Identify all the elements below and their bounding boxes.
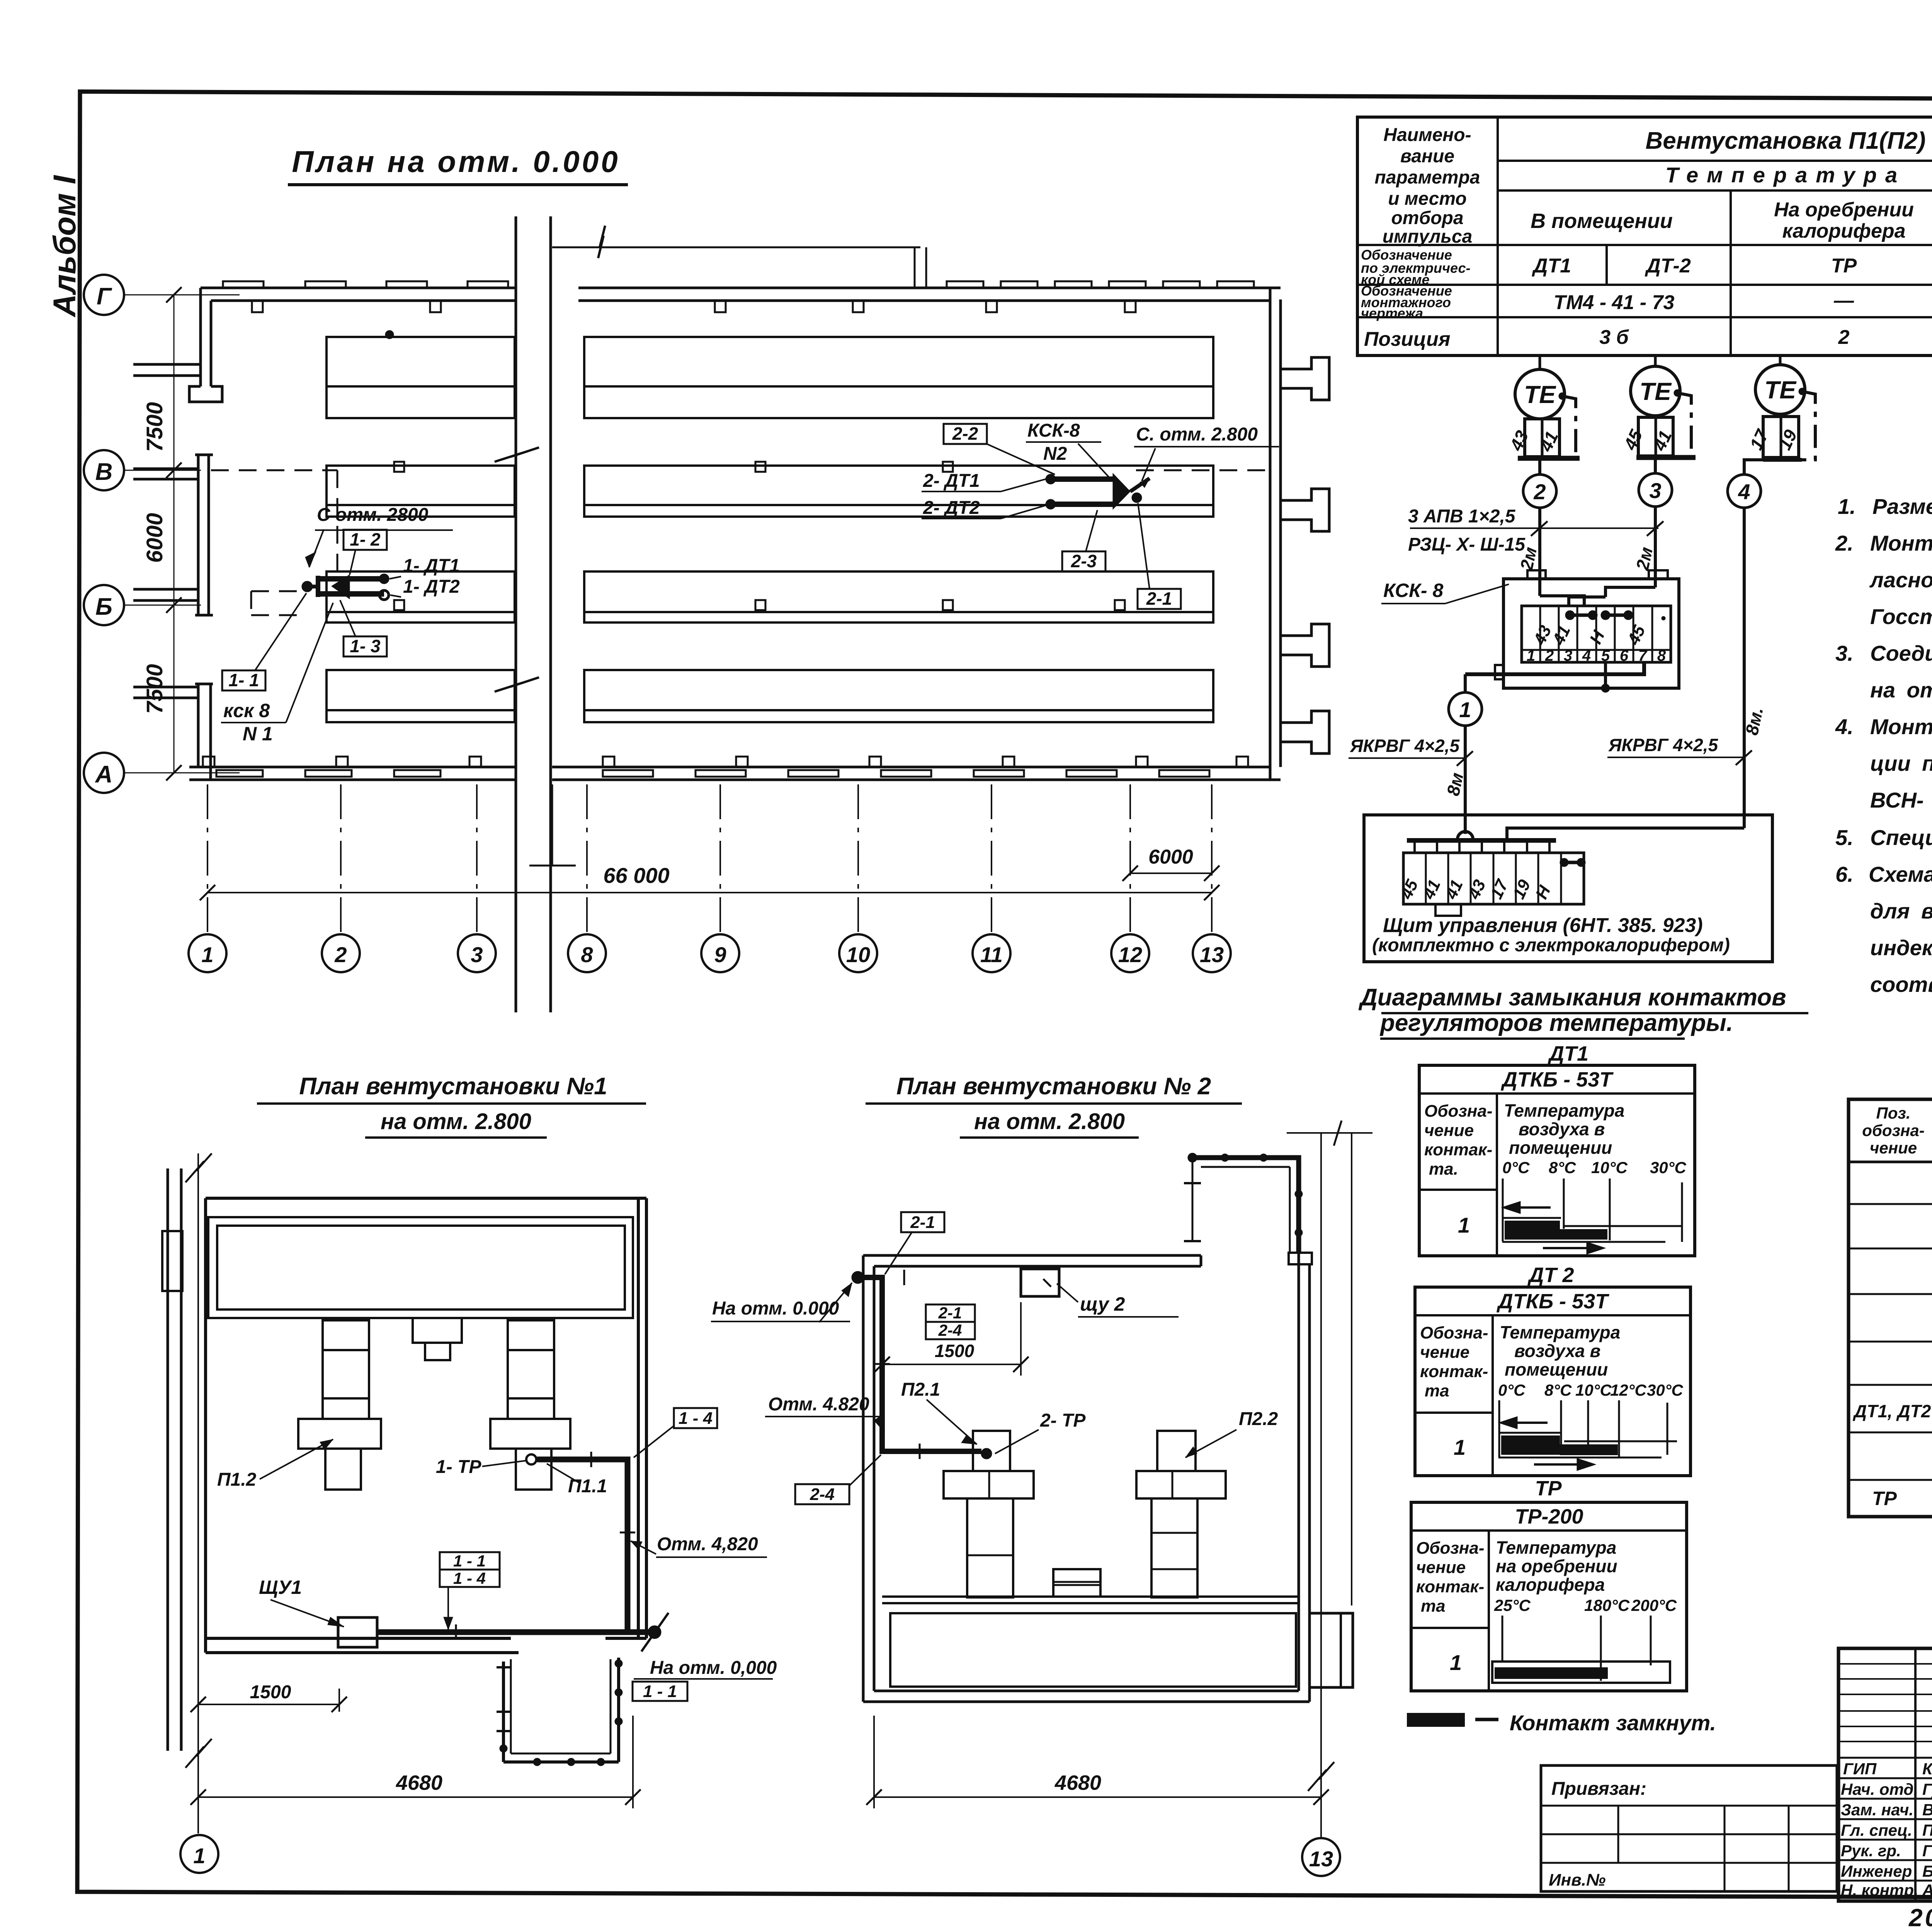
column circle 9 [701, 934, 739, 972]
svg-text:Клейн: Клейн [1922, 1760, 1932, 1778]
right wall columns [1270, 288, 1329, 780]
svg-text:2-4: 2-4 [938, 1321, 962, 1339]
column circle 1 [189, 934, 226, 972]
svg-text:8°С: 8°С [1544, 1381, 1572, 1399]
svg-text:Схема внешних проводок выпо: Схема внешних проводок выполнена в общем… [1869, 862, 1932, 886]
svg-text:Спецификация выполнена на 2: Спецификация выполнена на 2 установки. [1870, 825, 1932, 850]
svg-text:Наимено-: Наимено- [1383, 125, 1471, 145]
callout 1-1 [222, 670, 265, 690]
svg-text:2- ДТ1: 2- ДТ1 [923, 471, 980, 491]
corridor verticals [516, 216, 551, 1012]
column circle 11 [973, 934, 1010, 972]
callout 1-2 [344, 530, 387, 550]
svg-text:Отм. 4.820: Отм. 4.820 [768, 1394, 869, 1415]
KCK-8 N2 cable cluster [922, 420, 1279, 609]
svg-text:ТЕ: ТЕ [1764, 376, 1797, 404]
fan unit P2.1 [944, 1431, 1034, 1597]
KCK-8 N1 cable cluster [221, 505, 460, 745]
svg-text:Инженер: Инженер [1841, 1862, 1912, 1880]
svg-text:контак-: контак- [1416, 1577, 1484, 1596]
svg-text:8°С: 8°С [1549, 1158, 1576, 1177]
installation notes [1835, 494, 1932, 997]
svg-text:та: та [1421, 1597, 1446, 1616]
svg-text:на отм. 2.800: на отм. 2.800 [974, 1109, 1125, 1134]
svg-text:План вентустановки № 2: План вентустановки № 2 [896, 1073, 1211, 1100]
wire from table to TE3 [1779, 355, 1782, 365]
svg-text:та: та [1425, 1381, 1449, 1400]
callout 2-1 [1138, 589, 1181, 609]
svg-text:на оребрении: на оребрении [1496, 1556, 1617, 1576]
svg-text:2-2: 2-2 [952, 423, 978, 444]
svg-text:3: 3 [1649, 478, 1661, 503]
svg-text:параметра: параметра [1375, 167, 1480, 188]
wall G top [201, 288, 1281, 301]
svg-text:Размещение электрических про: Размещение электрических проводок уточни… [1872, 494, 1932, 519]
wires inside box [1540, 596, 1584, 606]
svg-text:0°С: 0°С [1502, 1158, 1530, 1177]
svg-text:66 000: 66 000 [603, 863, 669, 888]
pos circle 4 [1728, 474, 1761, 508]
sensor TE1 [1515, 369, 1565, 419]
svg-text:1- 1: 1- 1 [228, 670, 259, 690]
svg-text:10: 10 [846, 942, 870, 967]
svg-text:Температура: Температура [1504, 1100, 1624, 1121]
svg-text:2-1: 2-1 [1146, 588, 1172, 609]
svg-text:импульса: импульса [1383, 226, 1473, 247]
left wall column [162, 1168, 182, 1751]
sensor body 3 [1763, 417, 1799, 457]
svg-text:1 - 4: 1 - 4 [679, 1409, 713, 1428]
svg-text:С отм. 2800: С отм. 2800 [317, 505, 429, 525]
cable marker line [1410, 527, 1658, 529]
pos circle 2 [1538, 458, 1541, 474]
svg-text:калорифера: калорифера [1782, 220, 1905, 242]
svg-text:1: 1 [1450, 1650, 1462, 1675]
svg-text:3.: 3. [1835, 641, 1854, 665]
top duct line [552, 226, 926, 288]
contact diagrams [1407, 1042, 1716, 1735]
svg-text:ТМ4 - 41 - 73: ТМ4 - 41 - 73 [1554, 291, 1675, 314]
svg-text:отбора: отбора [1391, 208, 1463, 228]
svg-text:5.: 5. [1835, 825, 1854, 850]
svg-text:2-3: 2-3 [1071, 551, 1097, 571]
svg-text:Соединительные коробки N1 и: Соединительные коробки N1 и N2 установит… [1870, 641, 1932, 665]
svg-text:1: 1 [1459, 697, 1471, 722]
floor plan 0.000 [84, 145, 1329, 1012]
svg-text:Госстроя СССР.: Госстроя СССР. [1870, 604, 1932, 629]
parameters table P1(P2) [1357, 117, 1932, 355]
svg-text:ВСН- 296-72 ММСС СССР.: ВСН- 296-72 ММСС СССР. [1870, 788, 1932, 812]
svg-text:(комплектно с электрокалорифер: (комплектно с электрокалорифером) [1372, 935, 1730, 956]
svg-text:N 1: N 1 [243, 723, 273, 745]
svg-text:30°С: 30°С [1647, 1381, 1684, 1399]
svg-text:1: 1 [1458, 1213, 1470, 1237]
svg-text:11: 11 [980, 942, 1003, 967]
sensor TE2 [1631, 366, 1680, 416]
legend contact closed [1407, 1713, 1465, 1727]
svg-text:Поз.: Поз. [1876, 1104, 1911, 1122]
column circle 8 [568, 934, 606, 972]
svg-text:6: 6 [1620, 647, 1629, 664]
svg-text:А: А [95, 761, 113, 788]
svg-text:Обозна-: Обозна- [1416, 1539, 1485, 1558]
column axes and numbering [189, 784, 1231, 972]
svg-text:3: 3 [471, 942, 483, 967]
jumper links [1570, 614, 1593, 617]
duct column left [298, 1320, 381, 1490]
grid circle V [84, 450, 124, 490]
wall A bottom [189, 767, 1281, 780]
svg-text:ТР: ТР [1535, 1477, 1562, 1500]
svg-text:чение: чение [1870, 1139, 1917, 1157]
svg-text:2-1: 2-1 [910, 1213, 935, 1232]
svg-text:РЗЦ- Х- Ш-15: РЗЦ- Х- Ш-15 [1408, 534, 1526, 555]
dim 4680 plan2 [874, 1796, 1321, 1798]
column circle 10 [839, 934, 877, 972]
specification table [1849, 1099, 1932, 1517]
band ticks [386, 331, 1125, 610]
svg-text:2-4: 2-4 [810, 1485, 835, 1504]
sensor body 1 [1525, 419, 1560, 457]
dim 1500 plan2 [882, 1364, 1021, 1365]
grid axis 1 [185, 1153, 212, 1833]
svg-text:Диаграммы замыкания контакто: Диаграммы замыкания контактов [1358, 984, 1786, 1011]
svg-text:ГИП: ГИП [1843, 1760, 1877, 1778]
svg-text:кск 8: кск 8 [223, 700, 270, 721]
duct column right [490, 1320, 570, 1490]
column circle 2 [322, 934, 360, 972]
wall G window marks [223, 281, 1254, 312]
svg-text:Барт: Барт [1922, 1862, 1932, 1880]
svg-text:калорифера: калорифера [1496, 1575, 1605, 1595]
room walls [206, 1198, 646, 1653]
control cabinet ShchU1 [338, 1617, 377, 1647]
wire 3 to KCK box [1654, 507, 1657, 587]
svg-text:регуляторов температуры.: регуляторов температуры. [1379, 1010, 1733, 1036]
cable run plan2 [852, 1271, 864, 1284]
wire from table to TE2 [1654, 355, 1657, 366]
svg-text:С. отм. 2.800: С. отм. 2.800 [1136, 424, 1258, 445]
platform band rows [327, 337, 1213, 722]
svg-text:Б: Б [95, 594, 112, 620]
svg-text:—: — [1833, 289, 1854, 312]
cable tray top right [1192, 1158, 1299, 1253]
privyazan table [1541, 1765, 1837, 1891]
svg-text:Щит управления (6НТ. 385. 92: Щит управления (6НТ. 385. 923) [1383, 914, 1703, 937]
svg-text:8: 8 [1657, 647, 1666, 664]
svg-text:ЩУ1: ЩУ1 [259, 1577, 302, 1598]
svg-text:Привязан:: Привязан: [1551, 1779, 1646, 1799]
svg-text:обозна-: обозна- [1862, 1121, 1924, 1139]
callout 2-1 top [901, 1212, 944, 1232]
svg-text:180°С: 180°С [1584, 1596, 1630, 1614]
ventilation unit plan 2 [711, 1073, 1372, 1876]
svg-text:Альбом I: Альбом I [47, 175, 82, 318]
svg-text:чение: чение [1420, 1343, 1469, 1362]
callouts 2-1 2-4 stack [926, 1304, 975, 1322]
svg-text:Позиция: Позиция [1364, 328, 1450, 350]
svg-text:N2: N2 [1043, 444, 1067, 464]
svg-text:13: 13 [1200, 942, 1224, 967]
svg-text:чение: чение [1424, 1121, 1474, 1140]
floor platform plan2 [882, 1569, 1299, 1687]
svg-text:воздуха в: воздуха в [1514, 1341, 1600, 1361]
svg-text:1 - 1: 1 - 1 [453, 1552, 486, 1570]
svg-text:Паз: Паз [1922, 1821, 1932, 1839]
svg-text:В: В [95, 459, 113, 485]
svg-text:2- ДТ2: 2- ДТ2 [923, 498, 980, 518]
right attachment [1310, 1613, 1353, 1687]
svg-text:200°С: 200°С [1631, 1596, 1677, 1614]
svg-text:Монтаж приборов и средств а: Монтаж приборов и средств автоматизации … [1870, 531, 1932, 555]
svg-text:ДТ1, ДТ2: ДТ1, ДТ2 [1852, 1401, 1931, 1421]
grid circle B [84, 585, 124, 625]
callout 2-2 [944, 424, 987, 444]
svg-text:4: 4 [1738, 480, 1750, 504]
control panel box [1364, 815, 1772, 962]
column circle 12 [1111, 934, 1149, 972]
panel terminal strip [1403, 853, 1584, 904]
ventilation unit plan 1 [162, 1073, 777, 1873]
svg-text:контак-: контак- [1420, 1362, 1488, 1381]
svg-text:для вентустановок П1 и П2: для вентустановок П1 и П2 с добавлением … [1870, 899, 1932, 923]
control cabinet ShchU2 [1021, 1269, 1059, 1296]
callout 1-4 [674, 1408, 717, 1428]
svg-text:ДТ1: ДТ1 [1548, 1042, 1588, 1065]
svg-text:ТР: ТР [1831, 255, 1857, 277]
wire from pos4 into panel [1507, 828, 1744, 840]
left wall columns [133, 288, 222, 780]
svg-text:Н. контр.: Н. контр. [1841, 1881, 1918, 1899]
dim line 66000 [207, 892, 1212, 893]
svg-text:Зам. нач.: Зам. нач. [1841, 1801, 1913, 1819]
svg-text:На оребрении: На оребрении [1774, 199, 1914, 221]
svg-text:Температура: Температура [1500, 1322, 1620, 1342]
svg-text:2- ТР: 2- ТР [1040, 1410, 1086, 1431]
svg-text:воздуха в: воздуха в [1519, 1119, 1605, 1139]
terminal strip KCK-8 [1522, 606, 1671, 662]
svg-text:На отм. 0,000: На отм. 0,000 [650, 1658, 777, 1678]
wire from table to TE1 [1539, 355, 1541, 369]
svg-text:П2.2: П2.2 [1239, 1409, 1278, 1429]
svg-text:8: 8 [581, 942, 593, 967]
svg-text:индекса в маркировке цепей: индекса в маркировке цепей и обозначении… [1870, 935, 1932, 960]
svg-text:ЯКРВГ 4×2,5: ЯКРВГ 4×2,5 [1608, 735, 1719, 755]
callout 2-3 [1062, 551, 1105, 571]
svg-text:4: 4 [1582, 647, 1591, 664]
wire TE3 to 4 [1744, 460, 1763, 474]
svg-text:1- ДТ2: 1- ДТ2 [403, 577, 460, 597]
svg-text:3 АПВ 1×2,5: 3 АПВ 1×2,5 [1408, 506, 1516, 527]
svg-text:П2.1: П2.1 [901, 1379, 940, 1400]
heating stub below wall A [529, 784, 576, 866]
svg-text:на отм. 2.800: на отм. 2.800 [381, 1109, 531, 1134]
pos circle 3 [1654, 457, 1657, 473]
svg-text:помещении: помещении [1505, 1359, 1608, 1379]
svg-text:2-1: 2-1 [938, 1304, 962, 1322]
svg-text:соответствии с номером вент: соответствии с номером вентустановки. [1870, 972, 1932, 997]
svg-text:КСК- 8: КСК- 8 [1383, 580, 1443, 601]
intake chamber [208, 1217, 633, 1318]
svg-text:щу 2: щу 2 [1080, 1293, 1125, 1315]
dim 1500 plan1 [198, 1704, 339, 1705]
svg-text:помещении: помещении [1509, 1138, 1612, 1158]
sensor TE3 [1755, 365, 1805, 414]
svg-text:ДТ1: ДТ1 [1532, 255, 1571, 277]
svg-text:2: 2 [1533, 480, 1546, 504]
title block [1541, 1648, 1932, 1932]
svg-text:Температура: Температура [1496, 1537, 1616, 1558]
junction box KCK-8 [1503, 579, 1679, 688]
svg-text:Контакт замкнут.: Контакт замкнут. [1510, 1711, 1716, 1735]
svg-text:Выборный: Выборный [1922, 1801, 1932, 1819]
svg-text:ТР: ТР [1872, 1488, 1897, 1509]
callout 2-4 left [795, 1484, 849, 1504]
middle stub [413, 1318, 462, 1360]
grid circle A [84, 753, 124, 793]
svg-text:0°С: 0°С [1498, 1381, 1526, 1399]
svg-text:9: 9 [714, 942, 726, 967]
svg-text:1- 2: 1- 2 [350, 529, 381, 549]
svg-text:чение: чение [1416, 1558, 1466, 1577]
svg-text:1: 1 [201, 942, 213, 967]
svg-text:Рук. гр.: Рук. гр. [1841, 1842, 1901, 1860]
svg-text:1 - 4: 1 - 4 [453, 1569, 486, 1587]
wire 2 to KCK box [1538, 508, 1541, 596]
svg-text:П1.2: П1.2 [217, 1469, 257, 1490]
bottom wire out [1465, 662, 1644, 674]
sensor body 2 [1638, 417, 1673, 456]
svg-text:ДТ-2: ДТ-2 [1645, 255, 1691, 277]
grid axis stubs [124, 295, 240, 773]
svg-text:ласно строительным нормам и: ласно строительным нормам и правилам СН … [1869, 568, 1932, 592]
svg-text:25°С: 25°С [1494, 1596, 1531, 1614]
svg-text:6.: 6. [1835, 862, 1854, 886]
svg-text:та.: та. [1429, 1160, 1458, 1179]
dim 4680 plan1 [198, 1796, 633, 1798]
grid circle G [84, 275, 124, 315]
pos circle 1 [1464, 674, 1467, 692]
grid axis 13 [1287, 1121, 1372, 1838]
svg-text:На отм. 0.000: На отм. 0.000 [712, 1298, 839, 1319]
svg-text:1500: 1500 [935, 1341, 975, 1361]
svg-text:2: 2 [1838, 326, 1850, 349]
wire 4 down to control panel [1743, 508, 1746, 828]
svg-text:на отм. 2.500 м, а датчики: на отм. 2.500 м, а датчики ДТ1 и ДТ2 - н… [1870, 678, 1932, 702]
svg-text:Нач. отд.: Нач. отд. [1841, 1780, 1918, 1798]
svg-text:вание: вание [1400, 146, 1454, 167]
svg-text:Гужва: Гужва [1922, 1780, 1932, 1798]
svg-text:1 - 1: 1 - 1 [643, 1682, 677, 1701]
svg-text:План на отм. 0.000: План на отм. 0.000 [292, 145, 620, 179]
dimension ticks [166, 287, 182, 781]
svg-text:4680: 4680 [1054, 1771, 1101, 1794]
svg-text:1- ДТ1: 1- ДТ1 [403, 556, 460, 576]
svg-text:5: 5 [1601, 647, 1610, 664]
svg-text:Обозна-: Обозна- [1424, 1102, 1493, 1121]
svg-text:Вентустановка П1(П2): Вентустановка П1(П2) [1646, 128, 1926, 154]
callout 1-3 [344, 636, 387, 656]
break marks corridor [495, 447, 539, 462]
cable run plan1 [526, 1454, 536, 1464]
svg-text:ТЕ: ТЕ [1639, 378, 1672, 405]
svg-text:7500: 7500 [142, 664, 167, 714]
svg-text:1: 1 [193, 1844, 205, 1868]
svg-text:ТЕ: ТЕ [1524, 381, 1556, 408]
svg-text:Инв.№: Инв.№ [1549, 1871, 1605, 1889]
svg-text:Гл. спец.: Гл. спец. [1841, 1821, 1912, 1839]
svg-text:контак-: контак- [1424, 1140, 1492, 1159]
svg-text:1: 1 [1527, 647, 1535, 664]
svg-text:В помещении: В помещении [1531, 209, 1673, 233]
svg-text:1- ТР: 1- ТР [436, 1457, 481, 1477]
svg-text:КСК-8: КСК-8 [1027, 420, 1080, 441]
svg-text:1- 3: 1- 3 [350, 636, 381, 656]
svg-text:3: 3 [1564, 647, 1572, 664]
svg-text:6000: 6000 [142, 513, 167, 563]
svg-text:4.: 4. [1835, 714, 1854, 739]
svg-text:1500: 1500 [250, 1682, 291, 1702]
svg-text:30°С: 30°С [1650, 1158, 1687, 1177]
svg-text:ДТКБ - 53Т: ДТКБ - 53Т [1501, 1068, 1614, 1091]
svg-text:Горбалетова: Горбалетова [1922, 1842, 1932, 1860]
svg-text:6000: 6000 [1148, 846, 1193, 868]
svg-text:7: 7 [1638, 647, 1648, 664]
column circle 3 [458, 934, 496, 972]
svg-text:3 б: 3 б [1599, 326, 1629, 349]
svg-text:Анбиндер: Анбиндер [1922, 1881, 1932, 1899]
svg-text:13: 13 [1309, 1847, 1333, 1871]
svg-text:10°С: 10°С [1591, 1158, 1628, 1177]
svg-text:ДТ 2: ДТ 2 [1527, 1264, 1574, 1287]
svg-text:ТР-200: ТР-200 [1515, 1505, 1583, 1528]
svg-text:Отм. 4,820: Отм. 4,820 [657, 1534, 758, 1554]
svg-text:Г: Г [97, 283, 112, 310]
svg-text:ции по монтажу защитного з: ции по монтажу защитного заземления и за… [1870, 751, 1932, 776]
svg-text:ЯКРВГ 4×2,5: ЯКРВГ 4×2,5 [1350, 736, 1460, 756]
svg-text:12: 12 [1118, 942, 1142, 967]
column circle 13 [1193, 934, 1231, 972]
svg-text:2: 2 [1545, 647, 1554, 664]
dashed cable route axis V [211, 470, 1271, 615]
svg-text:1: 1 [1454, 1435, 1466, 1459]
external wiring schematic [1349, 355, 1932, 1039]
svg-text:12°С: 12°С [1610, 1381, 1647, 1399]
svg-text:20789- 01 55: 20789- 01 55 [1908, 1904, 1932, 1932]
floor trench [511, 1659, 611, 1753]
svg-text:Обозна-: Обозна- [1420, 1323, 1488, 1342]
svg-text:1.: 1. [1838, 494, 1856, 519]
svg-text:Монтаж защитного зануления: Монтаж защитного зануления выполнить сог… [1870, 714, 1932, 739]
svg-text:4680: 4680 [396, 1771, 442, 1794]
svg-text:План вентустановки №1: План вентустановки №1 [299, 1073, 607, 1100]
room walls plan2 [863, 1167, 1310, 1702]
svg-text:2: 2 [334, 942, 347, 967]
svg-text:2.: 2. [1835, 531, 1854, 555]
svg-text:10°С: 10°С [1575, 1381, 1612, 1399]
svg-text:Температура: Температура [1665, 163, 1906, 187]
callouts 1-1 1-4 stack [440, 1552, 500, 1570]
svg-text:и место: и место [1388, 189, 1467, 209]
svg-text:чертежа: чертежа [1361, 305, 1423, 321]
panel top bus [1407, 838, 1556, 843]
svg-text:7500: 7500 [142, 402, 167, 452]
svg-text:ДТКБ - 53Т: ДТКБ - 53Т [1497, 1290, 1609, 1313]
fan unit P2.2 [1136, 1431, 1226, 1597]
